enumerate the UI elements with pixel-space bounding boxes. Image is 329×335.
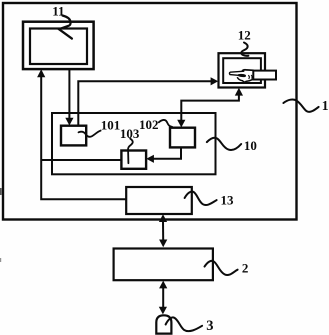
svg-text:13: 13	[221, 192, 235, 207]
svg-text:10: 10	[244, 138, 257, 153]
wire 13 to 2	[162, 221, 164, 241]
svg-text:1: 1	[322, 98, 329, 113]
leader squiggle for 102	[159, 120, 172, 127]
arrowhead into mouse 3 (down)	[159, 307, 167, 315]
box 10	[52, 113, 216, 174]
arrowhead into 12 bottom (up)	[235, 88, 243, 96]
arrowhead into 101 (down)	[65, 118, 73, 126]
box 102	[170, 128, 195, 148]
svg-text:11: 11	[52, 3, 64, 18]
scan speckle on left margin	[0, 188, 2, 195]
arrowhead into 102 (down)	[177, 120, 185, 128]
arrowhead into 13 bottom (up)	[159, 214, 167, 222]
leader squiggle for 13	[185, 192, 217, 205]
mouse 3	[156, 315, 171, 333]
svg-text:3: 3	[206, 318, 213, 334]
leader squiggle for 101	[79, 131, 101, 137]
leader squiggle for 12	[241, 43, 248, 56]
small rectangle at hand (cuff)	[253, 71, 276, 80]
leader squiggle for 103	[128, 139, 133, 164]
arrowhead into 103 (left)	[146, 155, 154, 163]
wire 102 up to 12 (bent)	[181, 95, 239, 121]
box 2	[114, 249, 213, 281]
arrowhead into 2 bottom (up)	[159, 281, 167, 289]
box 12 outer frame	[219, 53, 266, 87]
box 13	[126, 187, 192, 214]
leader squiggle for 2	[205, 261, 238, 275]
monitor 11 outer frame	[23, 22, 94, 69]
svg-text:103: 103	[120, 126, 140, 141]
wire monitor 11 down to 101	[68, 69, 70, 120]
hand cursor icon inside box 12	[229, 70, 253, 82]
arrowhead into 12 left (right)	[211, 77, 219, 85]
wire 101 up and right to 12	[78, 81, 212, 125]
wire 102 down and left to 103	[153, 147, 181, 158]
box 12 inner frame	[223, 58, 261, 83]
svg-text:102: 102	[139, 117, 159, 132]
svg-text:101: 101	[101, 118, 121, 133]
box 1 (system outer box)	[3, 3, 297, 220]
box 101	[61, 126, 86, 146]
leader squiggle for 11	[59, 16, 72, 39]
svg-text:2: 2	[242, 261, 249, 276]
monitor 11 inner screen	[30, 29, 87, 65]
leader squiggle for 10	[207, 138, 241, 150]
wire 2 to 3	[162, 287, 164, 308]
leader squiggle for 3	[166, 317, 203, 331]
box 103	[121, 151, 146, 169]
arrowhead into monitor 11 (up)	[37, 69, 45, 77]
leader squiggle for 1	[283, 100, 318, 112]
wire 13 to monitor 11 (left riser and bottom run)	[41, 76, 126, 200]
wire 103 to monitor riser (branch)	[41, 159, 121, 161]
svg-text:12: 12	[238, 28, 251, 43]
arrowhead into 2 top (down)	[159, 240, 167, 248]
